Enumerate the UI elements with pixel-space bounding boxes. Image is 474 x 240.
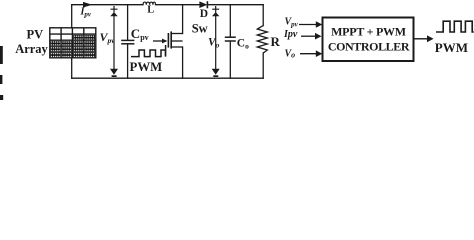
svg-text:PV: PV [27, 28, 44, 42]
source stub [171, 46, 182, 48]
transistor Sw (MOSFET) [153, 31, 183, 48]
body stub [171, 40, 182, 42]
left margin mark 3 [0, 95, 3, 100]
wire Cpv branch upper [127, 5, 129, 40]
svg-text:D: D [200, 8, 208, 20]
wire left vertical (top corner to PV array top) [71, 5, 73, 28]
svg-text:L: L [147, 4, 154, 15]
gate bar [167, 33, 169, 48]
wire top horizontal (left segment to inductor) [72, 4, 143, 6]
diode D [200, 2, 207, 8]
wire Co branch upper [229, 5, 231, 37]
PV array panel grid [50, 28, 96, 58]
PWM gate pulse waveform [131, 45, 166, 57]
controller box U1 MPPT + PWM [323, 18, 414, 62]
wire top horizontal (diode cathode to right corner) [208, 4, 264, 6]
output arrow PWM [414, 35, 434, 42]
svg-text:Sw: Sw [192, 22, 208, 36]
inductor L [143, 2, 156, 5]
wire top horizontal (inductor to diode anode) [156, 4, 200, 6]
signal arrow Vpv [299, 21, 322, 28]
wire Cpv branch lower [127, 44, 129, 78]
wire MOSFET source lead [182, 47, 184, 78]
svg-text:CONTROLLER: CONTROLLER [328, 39, 410, 53]
wire Co branch lower [229, 41, 231, 78]
wire right vertical (resistor to bottom wire) [262, 53, 264, 78]
gate arrowhead [162, 39, 168, 44]
capacitor Co [225, 37, 236, 41]
left margin mark 2 [0, 75, 2, 84]
svg-text:Array: Array [15, 42, 48, 56]
wire left vertical (PV array bottom to bottom wire) [71, 58, 73, 78]
voltage arrow Vo [212, 6, 219, 71]
capacitor Cpv [121, 40, 134, 43]
svg-text:Vo: Vo [285, 49, 296, 60]
wire right vertical (top corner to resistor) [262, 5, 264, 26]
resistor R [257, 26, 267, 53]
signal arrow Vo [300, 50, 322, 57]
wire MOSFET drain lead [182, 5, 184, 34]
drain stub [171, 33, 182, 35]
voltage arrow Vpv [111, 6, 118, 71]
svg-text:PWM: PWM [130, 60, 163, 74]
gate lead [153, 40, 164, 42]
svg-text:MPPT + PWM: MPPT + PWM [331, 25, 406, 39]
channel bar [170, 31, 172, 48]
signal arrow Ipv [301, 33, 322, 40]
current arrow Ipv on top wire [83, 2, 92, 8]
svg-text:R: R [271, 34, 281, 49]
left margin mark 1 [0, 46, 3, 64]
svg-text:PWM: PWM [435, 40, 468, 55]
output PWM pulse waveform [436, 21, 474, 32]
hatched PV cells [73, 35, 83, 40]
svg-text:Ipv: Ipv [283, 29, 298, 40]
wire bottom horizontal [72, 77, 264, 79]
